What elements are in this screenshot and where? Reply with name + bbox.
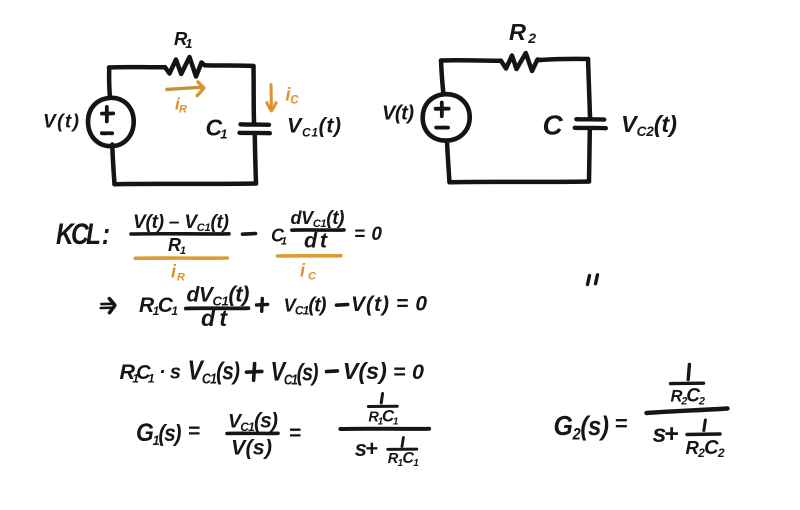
svg-text:=: =: [615, 411, 628, 436]
wire top-left segment circuit 2: [441, 58, 501, 63]
KCL equation: fraction bar 1: [131, 232, 229, 236]
transfer function G1: small fraction bar bottom: [388, 448, 417, 451]
svg-text:R1C1: R1C1: [139, 294, 178, 318]
svg-text:VC1(t): VC1(t): [284, 295, 327, 318]
svg-text:C: C: [543, 110, 564, 141]
wire right vertical lower circuit 2: [587, 131, 592, 182]
svg-text:iC: iC: [300, 261, 317, 283]
svg-text:R2: R2: [509, 19, 536, 46]
transfer function G2: main fraction bar: [647, 409, 728, 414]
svg-text:dVC1(t): dVC1(t): [187, 282, 250, 309]
current arrow iR (orange): [167, 82, 204, 96]
wire top-right segment circuit 2: [540, 59, 588, 60]
voltage source V2 circuit 2: [423, 94, 470, 140]
Laplace equation: plus: [247, 364, 262, 381]
svg-text:R1C1: R1C1: [368, 407, 398, 428]
svg-text:· s: · s: [159, 362, 181, 384]
svg-text:V(t): V(t): [382, 103, 414, 125]
wire right vertical upper circuit 1: [251, 66, 256, 123]
transfer function G2: small fraction bar top: [671, 382, 704, 386]
Laplace equation: minus: [327, 369, 338, 373]
svg-text:VC1(t): VC1(t): [287, 114, 341, 140]
resistor R2: [501, 53, 540, 71]
svg-text:dVC1(t): dVC1(t): [291, 208, 345, 230]
resistor R1: [165, 57, 205, 77]
svg-text:iR: iR: [171, 262, 185, 284]
capacitor C1: [240, 124, 270, 133]
svg-text:VC1(s): VC1(s): [188, 356, 241, 387]
ODE equation: plus sign: [257, 299, 268, 312]
svg-text:R1: R1: [168, 235, 186, 257]
svg-text:V(t) – VC1(t): V(t) – VC1(t): [133, 212, 229, 234]
KCL equation: orange underline iR: [135, 256, 227, 260]
wire left vertical upper circuit 1: [107, 68, 112, 98]
svg-text:R1C1: R1C1: [388, 450, 419, 469]
svg-text:dt: dt: [201, 305, 228, 331]
KCL equation: minus sign: [243, 232, 256, 236]
KCL equation: fraction bar 2: [292, 228, 344, 232]
svg-text:V(s): V(s): [231, 436, 272, 460]
wire left vertical upper circuit 2: [441, 61, 444, 95]
svg-text:=: =: [188, 420, 200, 443]
svg-text:V(t): V(t): [43, 112, 79, 133]
svg-text:G1(s): G1(s): [136, 419, 181, 448]
svg-text:VC1(s): VC1(s): [271, 358, 319, 388]
svg-text:V(s): V(s): [343, 358, 387, 384]
wire bottom circuit 1: [115, 181, 257, 186]
voltage source V1 circuit 1: [88, 98, 134, 146]
svg-text:G2(s): G2(s): [554, 410, 610, 444]
transfer function G1: small fraction bar top: [368, 405, 397, 408]
transfer function G2: small numerator 1: [688, 365, 689, 380]
svg-text:dt: dt: [304, 229, 328, 253]
capacitor C2: [575, 119, 606, 128]
svg-text:VC1(s): VC1(s): [228, 410, 278, 435]
wire bottom circuit 2: [450, 179, 590, 184]
transfer function G1: small 1 bottom: [402, 438, 403, 447]
ditto mark: [588, 275, 598, 285]
transfer function G2: small fraction bar bottom: [687, 432, 720, 436]
svg-text:iC: iC: [286, 85, 300, 107]
svg-text:V(t): V(t): [351, 293, 389, 316]
wire left vertical lower circuit 1: [112, 145, 114, 185]
svg-text:C1: C1: [206, 115, 228, 142]
implication arrow: [101, 299, 115, 313]
svg-text:VC2(t): VC2(t): [621, 111, 677, 139]
svg-text:s+: s+: [355, 436, 378, 461]
svg-text:R1: R1: [174, 28, 193, 51]
svg-text:C1: C1: [271, 226, 287, 248]
svg-text:R2C2: R2C2: [671, 386, 706, 408]
svg-text:R2C2: R2C2: [686, 437, 725, 460]
wire left vertical lower circuit 2: [447, 142, 450, 183]
wire right vertical upper circuit 2: [588, 59, 590, 117]
svg-text:R1C1: R1C1: [120, 360, 155, 386]
ODE equation: minus sign: [337, 303, 348, 307]
svg-text:s+: s+: [653, 420, 679, 448]
KCL equation: orange underline iC: [278, 254, 341, 258]
wire right vertical lower circuit 1: [255, 135, 256, 184]
wire top-left segment circuit 1: [109, 65, 165, 70]
transfer function G2: small 1 bottom: [704, 420, 706, 431]
wire top-right segment circuit 1: [205, 63, 254, 68]
svg-text:= 0: = 0: [396, 293, 427, 316]
transfer function G1: main fraction bar: [340, 427, 429, 431]
svg-text:KCL :: KCL :: [56, 218, 110, 251]
current arrow iC (orange): [267, 85, 276, 111]
svg-text:= 0: = 0: [393, 360, 424, 384]
svg-text:iR: iR: [175, 95, 187, 116]
svg-text:= 0: = 0: [354, 224, 382, 245]
transfer function G1: fraction bar: [227, 431, 278, 435]
ODE equation: fraction bar: [186, 306, 249, 310]
transfer function G1: small numerator 1: [381, 394, 382, 404]
svg-text:=: =: [289, 422, 301, 445]
